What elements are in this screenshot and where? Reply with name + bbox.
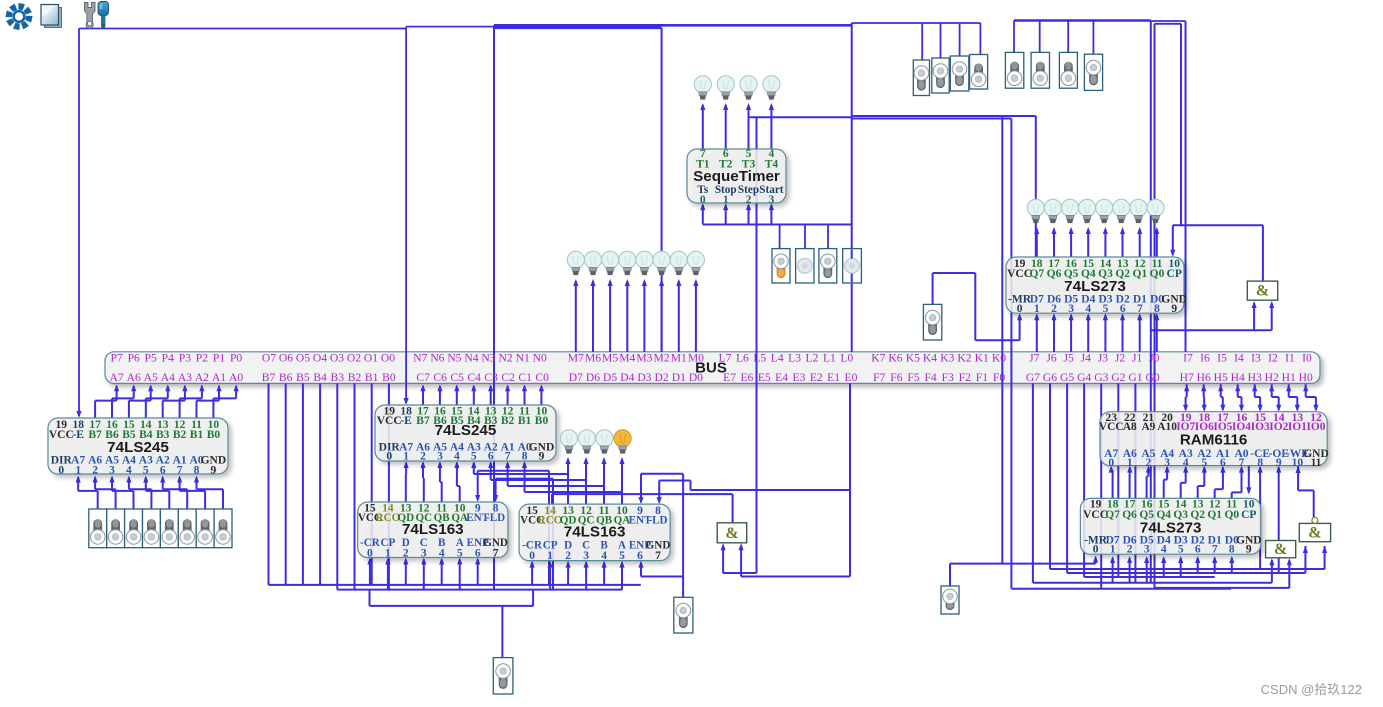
svg-text:A9: A9 bbox=[1141, 421, 1155, 433]
svg-text:74LS163: 74LS163 bbox=[402, 521, 464, 538]
svg-text:3: 3 bbox=[421, 547, 427, 559]
svg-text:2: 2 bbox=[1051, 303, 1057, 315]
svg-text:6: 6 bbox=[637, 550, 643, 562]
svg-text:M3: M3 bbox=[636, 352, 652, 365]
svg-text:8: 8 bbox=[194, 464, 200, 476]
svg-text:IO3: IO3 bbox=[1251, 421, 1270, 433]
svg-text:N5: N5 bbox=[447, 352, 461, 365]
svg-text:B0: B0 bbox=[382, 371, 396, 384]
svg-text:1: 1 bbox=[403, 451, 409, 463]
svg-text:6: 6 bbox=[1195, 544, 1201, 556]
svg-text:5: 5 bbox=[457, 547, 463, 559]
svg-text:L3: L3 bbox=[788, 352, 801, 365]
svg-text:6: 6 bbox=[160, 464, 166, 476]
svg-text:CP: CP bbox=[1241, 509, 1256, 521]
svg-text:F4: F4 bbox=[924, 371, 936, 384]
svg-text:K6: K6 bbox=[888, 352, 902, 365]
svg-text:J4: J4 bbox=[1081, 352, 1092, 365]
svg-text:1: 1 bbox=[1110, 544, 1116, 556]
svg-text:RAM6116: RAM6116 bbox=[1180, 432, 1248, 449]
svg-text:B2: B2 bbox=[501, 415, 515, 427]
svg-text:0: 0 bbox=[58, 464, 64, 476]
svg-text:C4: C4 bbox=[467, 371, 481, 384]
svg-text:C3: C3 bbox=[484, 371, 498, 384]
svg-text:B2: B2 bbox=[348, 371, 362, 384]
svg-text:B1: B1 bbox=[365, 371, 379, 384]
svg-text:1: 1 bbox=[547, 550, 553, 562]
svg-text:J0: J0 bbox=[1149, 352, 1160, 365]
svg-text:B6: B6 bbox=[279, 371, 293, 384]
svg-text:F2: F2 bbox=[959, 371, 971, 384]
svg-text:D7: D7 bbox=[569, 371, 583, 384]
svg-text:2: 2 bbox=[746, 194, 752, 206]
svg-text:G6: G6 bbox=[1043, 371, 1057, 384]
svg-text:P7: P7 bbox=[110, 352, 122, 365]
svg-text:C1: C1 bbox=[518, 371, 532, 384]
svg-text:B7: B7 bbox=[416, 415, 430, 427]
svg-text:4: 4 bbox=[1085, 303, 1091, 315]
svg-text:J2: J2 bbox=[1115, 352, 1126, 365]
svg-text:7: 7 bbox=[1239, 457, 1245, 469]
svg-text:Q6: Q6 bbox=[1047, 268, 1062, 280]
svg-text:F5: F5 bbox=[907, 371, 919, 384]
svg-text:H7: H7 bbox=[1180, 371, 1194, 384]
svg-text:-LD: -LD bbox=[648, 514, 667, 526]
svg-text:P2: P2 bbox=[196, 352, 208, 365]
svg-text:D1: D1 bbox=[672, 371, 686, 384]
svg-text:8: 8 bbox=[1257, 457, 1263, 469]
svg-text:D6: D6 bbox=[586, 371, 600, 384]
svg-text:&: & bbox=[1274, 541, 1287, 558]
svg-text:N6: N6 bbox=[430, 352, 444, 365]
svg-text:3: 3 bbox=[109, 464, 115, 476]
svg-text:D4: D4 bbox=[620, 371, 634, 384]
svg-text:Q6: Q6 bbox=[1122, 509, 1137, 521]
svg-text:H3: H3 bbox=[1248, 371, 1262, 384]
svg-text:-LD: -LD bbox=[486, 512, 505, 524]
svg-text:-E: -E bbox=[400, 415, 412, 427]
svg-text:IO0: IO0 bbox=[1307, 421, 1326, 433]
svg-text:A0: A0 bbox=[229, 371, 243, 384]
svg-text:O2: O2 bbox=[347, 352, 361, 365]
svg-text:11: 11 bbox=[1311, 457, 1322, 469]
svg-text:CP: CP bbox=[1167, 268, 1182, 280]
svg-text:4: 4 bbox=[1183, 457, 1189, 469]
svg-text:CSDN @拾玖122: CSDN @拾玖122 bbox=[1261, 682, 1362, 697]
svg-text:O4: O4 bbox=[313, 352, 327, 365]
svg-text:9: 9 bbox=[211, 464, 217, 476]
svg-text:0: 0 bbox=[367, 547, 373, 559]
svg-text:J7: J7 bbox=[1029, 352, 1040, 365]
svg-text:K4: K4 bbox=[923, 352, 937, 365]
svg-text:G2: G2 bbox=[1111, 371, 1125, 384]
svg-text:IO2: IO2 bbox=[1269, 421, 1288, 433]
svg-text:G7: G7 bbox=[1026, 371, 1040, 384]
svg-text:2: 2 bbox=[1146, 457, 1152, 469]
svg-text:A10: A10 bbox=[1157, 421, 1177, 433]
svg-text:7: 7 bbox=[1212, 544, 1218, 556]
svg-text:7: 7 bbox=[493, 547, 499, 559]
svg-text:A6: A6 bbox=[127, 371, 141, 384]
svg-text:N0: N0 bbox=[533, 352, 547, 365]
svg-text:B3: B3 bbox=[331, 371, 345, 384]
svg-text:74LS273: 74LS273 bbox=[1064, 278, 1126, 295]
svg-text:B2: B2 bbox=[173, 429, 187, 441]
svg-text:E1: E1 bbox=[827, 371, 840, 384]
svg-text:5: 5 bbox=[619, 550, 625, 562]
svg-text:G3: G3 bbox=[1094, 371, 1108, 384]
svg-text:74LS245: 74LS245 bbox=[435, 422, 497, 439]
svg-text:P3: P3 bbox=[179, 352, 191, 365]
svg-text:4: 4 bbox=[601, 550, 607, 562]
svg-text:N1: N1 bbox=[516, 352, 530, 365]
svg-text:E0: E0 bbox=[845, 371, 858, 384]
svg-text:C5: C5 bbox=[450, 371, 464, 384]
svg-text:74LS273: 74LS273 bbox=[1140, 520, 1202, 537]
svg-text:3: 3 bbox=[1068, 303, 1074, 315]
svg-text:8: 8 bbox=[1154, 303, 1160, 315]
svg-text:5: 5 bbox=[1103, 303, 1109, 315]
svg-text:I3: I3 bbox=[1251, 352, 1261, 365]
svg-text:74LS163: 74LS163 bbox=[564, 523, 626, 540]
svg-text:5: 5 bbox=[143, 464, 149, 476]
svg-text:A3: A3 bbox=[178, 371, 192, 384]
svg-text:0: 0 bbox=[386, 451, 392, 463]
svg-text:2: 2 bbox=[1127, 544, 1133, 556]
svg-text:0: 0 bbox=[529, 550, 535, 562]
svg-text:H5: H5 bbox=[1214, 371, 1228, 384]
svg-text:M2: M2 bbox=[654, 352, 670, 365]
svg-text:H0: H0 bbox=[1299, 371, 1313, 384]
svg-text:B0: B0 bbox=[207, 429, 221, 441]
svg-text:B5: B5 bbox=[296, 371, 310, 384]
svg-text:6: 6 bbox=[475, 547, 481, 559]
svg-text:6: 6 bbox=[488, 451, 494, 463]
svg-text:F6: F6 bbox=[890, 371, 902, 384]
svg-text:H2: H2 bbox=[1265, 371, 1279, 384]
svg-text:O7: O7 bbox=[262, 352, 276, 365]
svg-text:L2: L2 bbox=[806, 352, 819, 365]
svg-text:A5: A5 bbox=[144, 371, 158, 384]
svg-text:O1: O1 bbox=[364, 352, 378, 365]
svg-text:1: 1 bbox=[1034, 303, 1040, 315]
svg-text:4: 4 bbox=[454, 451, 460, 463]
svg-text:-E: -E bbox=[72, 429, 84, 441]
svg-text:N7: N7 bbox=[413, 352, 427, 365]
svg-text:J1: J1 bbox=[1132, 352, 1143, 365]
svg-text:O0: O0 bbox=[381, 352, 395, 365]
svg-text:P4: P4 bbox=[162, 352, 174, 365]
svg-text:1: 1 bbox=[1127, 457, 1133, 469]
svg-text:Q7: Q7 bbox=[1105, 509, 1120, 521]
svg-text:L4: L4 bbox=[771, 352, 784, 365]
svg-text:K2: K2 bbox=[957, 352, 971, 365]
svg-text:F3: F3 bbox=[942, 371, 954, 384]
svg-text:3: 3 bbox=[437, 451, 443, 463]
svg-text:B1: B1 bbox=[518, 415, 532, 427]
svg-text:7: 7 bbox=[655, 550, 661, 562]
svg-text:E6: E6 bbox=[740, 371, 753, 384]
svg-text:P1: P1 bbox=[213, 352, 225, 365]
svg-text:4: 4 bbox=[1161, 544, 1167, 556]
svg-text:I0: I0 bbox=[1302, 352, 1312, 365]
svg-text:Q1: Q1 bbox=[1207, 509, 1222, 521]
svg-text:G4: G4 bbox=[1077, 371, 1091, 384]
svg-text:&: & bbox=[725, 525, 738, 542]
svg-text:G1: G1 bbox=[1128, 371, 1142, 384]
svg-text:8: 8 bbox=[522, 451, 528, 463]
svg-text:L5: L5 bbox=[753, 352, 766, 365]
svg-text:VCC: VCC bbox=[1099, 421, 1124, 433]
svg-text:8: 8 bbox=[1229, 544, 1235, 556]
svg-text:E5: E5 bbox=[758, 371, 771, 384]
svg-text:P5: P5 bbox=[145, 352, 157, 365]
svg-text:6: 6 bbox=[1120, 303, 1126, 315]
svg-text:Q0: Q0 bbox=[1224, 509, 1239, 521]
svg-text:0: 0 bbox=[700, 194, 706, 206]
svg-text:Q7: Q7 bbox=[1029, 268, 1044, 280]
svg-text:E3: E3 bbox=[793, 371, 806, 384]
svg-text:VCC: VCC bbox=[1007, 268, 1032, 280]
svg-text:0: 0 bbox=[1017, 303, 1023, 315]
svg-text:E2: E2 bbox=[810, 371, 823, 384]
svg-text:E4: E4 bbox=[775, 371, 788, 384]
svg-text:D2: D2 bbox=[655, 371, 669, 384]
svg-text:7: 7 bbox=[1137, 303, 1143, 315]
svg-text:O3: O3 bbox=[330, 352, 344, 365]
svg-text:K1: K1 bbox=[975, 352, 989, 365]
svg-text:SequeTimer: SequeTimer bbox=[693, 168, 780, 185]
svg-text:2: 2 bbox=[403, 547, 409, 559]
svg-text:M7: M7 bbox=[568, 352, 584, 365]
svg-text:J5: J5 bbox=[1063, 352, 1074, 365]
svg-text:O5: O5 bbox=[296, 352, 310, 365]
svg-text:5: 5 bbox=[471, 451, 477, 463]
svg-text:B4: B4 bbox=[313, 371, 327, 384]
svg-text:I7: I7 bbox=[1183, 352, 1193, 365]
svg-text:I1: I1 bbox=[1285, 352, 1295, 365]
svg-text:1: 1 bbox=[75, 464, 81, 476]
svg-text:I2: I2 bbox=[1268, 352, 1278, 365]
svg-text:9: 9 bbox=[1246, 544, 1252, 556]
svg-text:7: 7 bbox=[505, 451, 511, 463]
svg-text:H1: H1 bbox=[1282, 371, 1296, 384]
svg-text:9: 9 bbox=[539, 451, 545, 463]
svg-text:5: 5 bbox=[1201, 457, 1207, 469]
svg-text:B7: B7 bbox=[262, 371, 276, 384]
svg-text:F0: F0 bbox=[993, 371, 1005, 384]
svg-text:&: & bbox=[1308, 525, 1321, 542]
svg-text:D5: D5 bbox=[603, 371, 617, 384]
svg-text:4: 4 bbox=[439, 547, 445, 559]
svg-text:10: 10 bbox=[1292, 457, 1304, 469]
svg-text:A2: A2 bbox=[195, 371, 209, 384]
svg-text:A4: A4 bbox=[161, 371, 175, 384]
svg-text:Q0: Q0 bbox=[1150, 268, 1165, 280]
svg-text:M6: M6 bbox=[585, 352, 601, 365]
svg-text:4: 4 bbox=[126, 464, 132, 476]
svg-text:P6: P6 bbox=[128, 352, 140, 365]
svg-text:2: 2 bbox=[420, 451, 426, 463]
svg-text:IO1: IO1 bbox=[1288, 421, 1307, 433]
svg-text:C6: C6 bbox=[433, 371, 447, 384]
svg-text:I6: I6 bbox=[1200, 352, 1210, 365]
svg-text:H6: H6 bbox=[1197, 371, 1211, 384]
svg-text:F1: F1 bbox=[976, 371, 988, 384]
svg-text:J3: J3 bbox=[1098, 352, 1109, 365]
svg-text:3: 3 bbox=[1144, 544, 1150, 556]
svg-text:D3: D3 bbox=[637, 371, 651, 384]
svg-text:G0: G0 bbox=[1146, 371, 1160, 384]
svg-text:2: 2 bbox=[92, 464, 98, 476]
svg-text:H4: H4 bbox=[1231, 371, 1245, 384]
svg-text:2: 2 bbox=[565, 550, 571, 562]
svg-text:6: 6 bbox=[1220, 457, 1226, 469]
svg-text:A7: A7 bbox=[110, 371, 124, 384]
svg-text:BUS: BUS bbox=[695, 360, 727, 377]
svg-text:F7: F7 bbox=[873, 371, 885, 384]
svg-text:J6: J6 bbox=[1046, 352, 1057, 365]
svg-text:N3: N3 bbox=[481, 352, 495, 365]
svg-text:C0: C0 bbox=[535, 371, 549, 384]
svg-text:B7: B7 bbox=[88, 429, 102, 441]
svg-text:L0: L0 bbox=[840, 352, 853, 365]
svg-text:A1: A1 bbox=[212, 371, 226, 384]
svg-text:L6: L6 bbox=[736, 352, 749, 365]
svg-text:1: 1 bbox=[723, 194, 729, 206]
svg-text:3: 3 bbox=[769, 194, 775, 206]
svg-text:M5: M5 bbox=[602, 352, 618, 365]
svg-text:0: 0 bbox=[1108, 457, 1114, 469]
svg-text:C2: C2 bbox=[501, 371, 515, 384]
svg-text:5: 5 bbox=[1178, 544, 1184, 556]
svg-text:Q1: Q1 bbox=[1133, 268, 1148, 280]
svg-text:K7: K7 bbox=[871, 352, 885, 365]
svg-text:B1: B1 bbox=[190, 429, 204, 441]
svg-text:P0: P0 bbox=[230, 352, 242, 365]
svg-text:O6: O6 bbox=[279, 352, 293, 365]
svg-text:74LS245: 74LS245 bbox=[107, 439, 169, 456]
svg-text:L1: L1 bbox=[823, 352, 836, 365]
svg-text:C7: C7 bbox=[416, 371, 430, 384]
svg-text:7: 7 bbox=[177, 464, 183, 476]
svg-text:9: 9 bbox=[1171, 303, 1177, 315]
svg-text:N4: N4 bbox=[464, 352, 478, 365]
svg-text:I4: I4 bbox=[1234, 352, 1244, 365]
svg-text:K0: K0 bbox=[992, 352, 1006, 365]
svg-text:0: 0 bbox=[1093, 544, 1099, 556]
svg-text:B0: B0 bbox=[535, 415, 549, 427]
svg-text:3: 3 bbox=[1164, 457, 1170, 469]
svg-text:&: & bbox=[1256, 283, 1269, 300]
svg-text:9: 9 bbox=[1276, 457, 1282, 469]
svg-text:M1: M1 bbox=[671, 352, 687, 365]
svg-text:1: 1 bbox=[385, 547, 391, 559]
svg-text:M4: M4 bbox=[619, 352, 635, 365]
svg-text:K3: K3 bbox=[940, 352, 954, 365]
svg-text:K5: K5 bbox=[906, 352, 920, 365]
svg-text:A8: A8 bbox=[1123, 421, 1137, 433]
svg-text:VCC: VCC bbox=[377, 415, 402, 427]
svg-text:VCC: VCC bbox=[49, 429, 74, 441]
svg-text:I5: I5 bbox=[1217, 352, 1227, 365]
svg-text:3: 3 bbox=[583, 550, 589, 562]
svg-text:N2: N2 bbox=[499, 352, 513, 365]
svg-text:G5: G5 bbox=[1060, 371, 1074, 384]
